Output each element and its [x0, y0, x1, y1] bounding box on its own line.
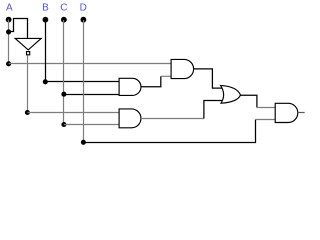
node A junction (to inverter): [6, 29, 11, 34]
node B end: [43, 79, 48, 84]
and-gate U4 (AND3: A, AND1out): [171, 59, 194, 78]
input terminal B: [43, 17, 49, 23]
svg-text:C: C: [60, 3, 67, 14]
wire A to AND3 top input: [9, 63, 172, 65]
wire AND2 output horizontal: [141, 118, 204, 120]
input terminal D: [81, 17, 87, 23]
node A end: [6, 61, 11, 66]
wire AND2 output to OR bottom input: [204, 101, 224, 119]
node inverter output end: [25, 110, 30, 115]
wire C to AND1 bottom input: [64, 94, 119, 96]
wire AND1 output to AND3: [141, 76, 161, 87]
wire C to AND2 bottom input: [64, 124, 119, 126]
wire inverter output vertical: [27, 55, 29, 112]
and-gate U6 (AND4: ORout, D): [275, 103, 298, 122]
and-gate U3 (AND2: notA,C): [119, 109, 141, 128]
wire D vertical: [83, 20, 85, 143]
wire OR output to AND4: [241, 95, 257, 107]
wire AND4 output stub: [298, 112, 305, 114]
not-gate U1 (inverter, pointing down): [15, 38, 41, 54]
wire into AND4 top input: [257, 107, 275, 109]
wire rail to AND4 bottom input: [256, 119, 276, 121]
svg-text:B: B: [42, 3, 49, 14]
wire B to AND1 top input: [45, 81, 119, 83]
wire C vertical: [63, 20, 65, 125]
node C end: [61, 122, 66, 127]
input terminal A: [6, 17, 12, 23]
svg-text:A: A: [6, 3, 13, 14]
input terminal C: [61, 17, 67, 23]
wire A to inverter input (loop): [9, 19, 28, 39]
and-gate U2 (AND1: B,C): [119, 78, 141, 95]
wire D rail to AND4: [83, 120, 255, 143]
wire A vertical: [8, 20, 10, 64]
node C junction: [61, 92, 66, 97]
wire B vertical: [45, 20, 47, 82]
wire inverter to AND2 top input: [27, 112, 119, 114]
wire AND3 output to OR top input: [194, 69, 224, 88]
svg-text:D: D: [80, 3, 87, 14]
or-gate U5: [221, 85, 241, 103]
node D end: [81, 140, 86, 145]
wire into AND3 bottom input: [161, 75, 171, 77]
